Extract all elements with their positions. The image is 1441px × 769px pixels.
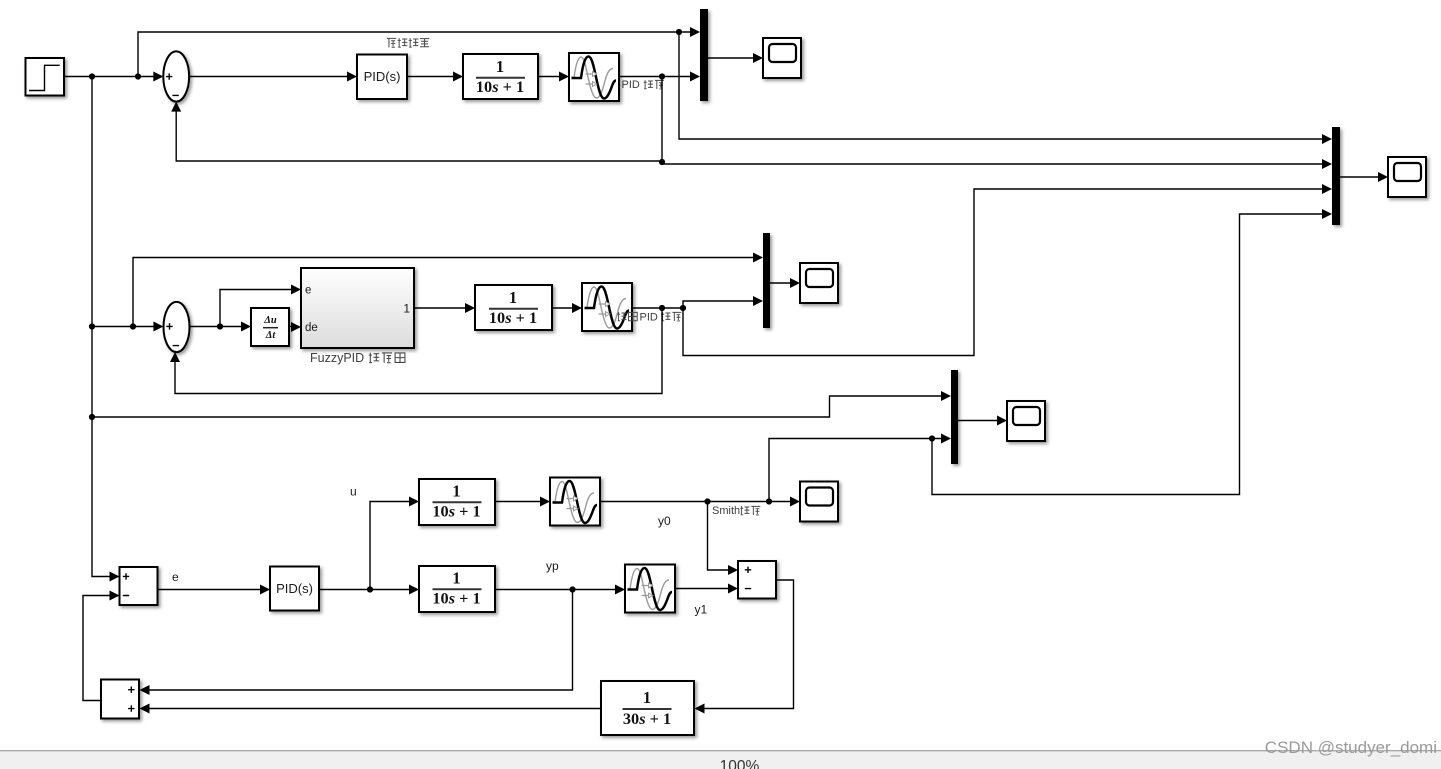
- wire PID output to big mux M4 input 2: [662, 159, 1332, 169]
- wire reference to big mux M4 input 1: [679, 32, 1332, 144]
- wire sum2 to dudt: [190, 322, 252, 332]
- wire reference to mux M3 input 1: [92, 391, 951, 417]
- wire mux M3 to scope SM3: [958, 416, 1007, 426]
- svg-text:Δt: Δt: [265, 330, 277, 341]
- wire PID1 to TF1: [407, 72, 463, 82]
- mux M1: [700, 9, 708, 101]
- wire TF4 to delay D4 with yp label: [495, 559, 625, 595]
- sum S5 feedback adder: [101, 680, 139, 719]
- label 原始信号: [387, 38, 429, 47]
- wire D4 to sum4 minus with y1 label: [675, 584, 738, 617]
- mux M4: [1332, 127, 1340, 225]
- transport delay D2: [582, 283, 632, 331]
- scope SC3: [800, 482, 838, 522]
- svg-text:PID(s): PID(s): [364, 69, 401, 84]
- wire u branch up to TF3: [350, 485, 419, 590]
- wire D2 output with junctions: [633, 305, 687, 311]
- svg-text:de: de: [305, 322, 318, 334]
- label Smith控制: [712, 505, 760, 517]
- wire sum1 to PID1: [189, 72, 357, 82]
- label FuzzyPID 控制器: [310, 351, 405, 365]
- wire TF1 to delay D1: [538, 72, 569, 82]
- transfer fcn TF4 1/(10s+1): [419, 566, 495, 612]
- derivative block dudt: [251, 308, 289, 346]
- scope SM3: [1007, 401, 1045, 441]
- label 模糊PID控制: [617, 312, 681, 324]
- wire step to sum1: [64, 72, 163, 82]
- wire fuzzy output to TF2: [414, 303, 475, 313]
- svg-text:FuzzyPID: FuzzyPID: [310, 351, 364, 365]
- sum S4 Smith right: [738, 561, 776, 599]
- scope SC2: [800, 263, 838, 303]
- wire to mux M2 input 2: [683, 296, 763, 308]
- wire dudt to fuzzy input de: [289, 322, 301, 332]
- PID controller block PID1: [357, 55, 407, 100]
- wire mux M2 to scope SC2: [770, 278, 800, 288]
- svg-text:yp: yp: [546, 559, 559, 573]
- wire TF3 to delay D3: [495, 497, 550, 507]
- svg-text:e: e: [305, 285, 311, 297]
- svg-text:PID(s): PID(s): [276, 581, 313, 596]
- svg-text:1: 1: [452, 569, 460, 588]
- wire e branch to fuzzy input e: [220, 285, 301, 327]
- svg-text:e: e: [172, 570, 179, 584]
- watermark CSDN: [1265, 738, 1437, 757]
- svg-text:Smith: Smith: [712, 505, 740, 517]
- svg-text:30s + 1: 30s + 1: [623, 709, 671, 728]
- wire reference branch to mux M1 input 1: [138, 27, 700, 77]
- transfer fcn TF3 1/(10s+1): [419, 479, 495, 525]
- transfer fcn TF1 1/(10s+1): [463, 54, 538, 99]
- svg-text:y1: y1: [695, 603, 708, 617]
- wire Smith output to big mux M4 input 4: [932, 209, 1332, 495]
- wire reference to mux M2 input 1: [133, 253, 763, 327]
- svg-text:10s + 1: 10s + 1: [432, 589, 480, 608]
- step source block: [26, 58, 65, 96]
- scope SC1: [763, 38, 801, 78]
- svg-text:10s + 1: 10s + 1: [489, 308, 537, 327]
- transfer fcn TF2 1/(10s+1): [475, 285, 552, 330]
- wire trunk to sum S2: [92, 322, 163, 332]
- FuzzyPID subsystem block: [301, 268, 414, 348]
- status bar: [0, 751, 1441, 769]
- label PID控制: [622, 79, 664, 91]
- svg-text:1: 1: [403, 302, 410, 316]
- wire sum4 output down to TF5: [695, 580, 794, 714]
- svg-text:100%: 100%: [720, 758, 760, 769]
- svg-text:u: u: [350, 485, 357, 499]
- svg-text:y0: y0: [658, 514, 671, 528]
- scope SC4: [1388, 157, 1426, 197]
- svg-text:PID: PID: [640, 312, 658, 324]
- wire y0 run to scope SC3: [600, 497, 800, 529]
- svg-text:PID: PID: [622, 79, 640, 91]
- sum S3 Smith left: [120, 567, 158, 605]
- mux M2: [763, 233, 770, 328]
- svg-text:1: 1: [509, 288, 517, 307]
- wire fuzzy output to big mux M4 input 3: [683, 184, 1332, 356]
- svg-text:10s + 1: 10s + 1: [432, 502, 480, 521]
- transport delay D3: [550, 478, 600, 526]
- wire yp down to sum S5 top input: [140, 590, 573, 696]
- svg-text:10s + 1: 10s + 1: [476, 77, 524, 96]
- svg-text:Δu: Δu: [263, 315, 277, 326]
- wire y0 to mux M3 input 2: [769, 434, 951, 502]
- transfer fcn TF5 1/(30s+1): [601, 681, 694, 735]
- wire fuzzy feedback to sum2 minus: [170, 308, 662, 394]
- sum S1: [163, 51, 189, 101]
- wire mux M1 to scope SC1: [708, 53, 763, 63]
- transport delay D4: [625, 565, 675, 613]
- wire mux M4 to scope SC4: [1340, 172, 1388, 182]
- svg-text:CSDN @studyer_domi: CSDN @studyer_domi: [1265, 738, 1437, 757]
- svg-text:1: 1: [496, 57, 504, 76]
- wire PID2 output: [319, 585, 419, 595]
- svg-text:1: 1: [452, 482, 460, 501]
- mux M3: [951, 370, 958, 464]
- transport delay D1: [569, 53, 619, 101]
- wire D1 to mux M1 input 2: [620, 72, 701, 82]
- wire PID feedback to sum1 minus: [171, 102, 662, 161]
- wire TF5 output to sum S5 bottom input: [140, 704, 602, 714]
- wire PID output down from junction: [659, 77, 665, 166]
- sum S2: [164, 302, 190, 352]
- PID controller block PID2: [270, 567, 319, 611]
- wire sum3 to PID2 with e label: [158, 570, 271, 595]
- svg-text:1: 1: [643, 688, 651, 707]
- wire sum5 output to sum3 minus: [83, 591, 120, 701]
- wire left trunk from step junction down to Smith sum: [89, 77, 120, 582]
- wire y0 down to sum4 plus: [708, 502, 739, 576]
- wire TF2 to delay D2: [552, 303, 582, 313]
